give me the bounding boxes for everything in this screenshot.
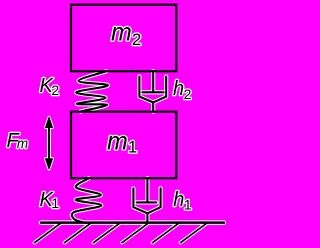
white halo underlay	[7, 19, 225, 243]
black artwork	[7, 19, 225, 243]
mass boxes on top (no halo)	[71, 5, 176, 179]
